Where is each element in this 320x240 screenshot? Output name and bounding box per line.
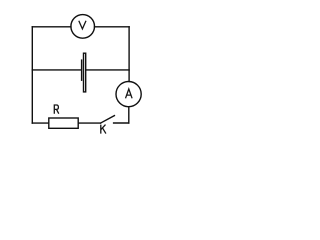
battery short plate (negative) [81,60,83,80]
label R (resistor) [54,105,59,114]
wire ammeter to bottom corner [128,107,130,123]
wire switch to resistor [78,122,100,124]
wire middle-right horizontal [86,69,129,71]
ammeter A1 circle [116,82,141,107]
switch K blade [101,116,115,124]
wire bottom-right horizontal [114,122,129,124]
resistor R1 box [49,118,78,128]
wire top-left horizontal [32,26,71,28]
wire middle-left horizontal [32,69,80,71]
wire bottom-left horizontal [32,122,49,124]
label A (ammeter) [126,89,133,98]
wire left vertical [31,27,33,123]
label V (voltmeter) [79,21,86,29]
voltmeter V1 circle [71,15,95,39]
wire top-right horizontal [95,26,130,28]
wire right vertical upper [128,27,130,82]
label K (switch) [101,125,106,134]
battery long plate (positive, hollow) [84,53,86,92]
